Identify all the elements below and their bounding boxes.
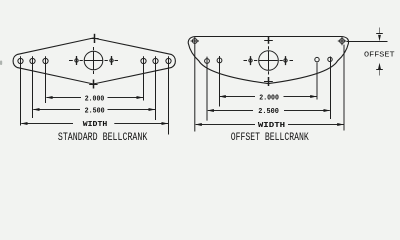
- hole P2 with extension line: [217, 56, 222, 107]
- arrow 2.000 left: [46, 96, 53, 99]
- hole P3: [315, 57, 319, 61]
- svg-text:OFFSET BELLCRANK: OFFSET BELLCRANK: [231, 132, 309, 144]
- small cross mark left of pivot: [249, 56, 252, 65]
- hole H4 with extension line: [141, 56, 146, 100]
- top vertex center mark: [90, 34, 98, 43]
- dimension line 2.500 (left crank): [33, 109, 80, 111]
- arrow 2.000 right: [137, 96, 144, 99]
- arrow 2.500 right: [149, 108, 156, 111]
- svg-text:2.500: 2.500: [258, 108, 279, 116]
- small cross mark right of pivot: [284, 56, 287, 65]
- dimension line 2.000 (left crank): [46, 97, 81, 99]
- arrow 2.000 right: [310, 95, 317, 98]
- small cross mark left of pivot: [75, 56, 78, 65]
- corner hole right: [338, 37, 346, 45]
- svg-text:2.000: 2.000: [85, 95, 105, 103]
- centerline dashes around central pivot: [244, 46, 294, 74]
- dimension line 2.000 (offset crank): [220, 96, 255, 98]
- arrow WIDTH left: [195, 123, 202, 126]
- svg-text:WIDTH: WIDTH: [83, 121, 108, 129]
- arrow WIDTH left: [21, 122, 28, 125]
- svg-text:WIDTH: WIDTH: [258, 122, 286, 130]
- arrow 2.500 left: [33, 108, 40, 111]
- bottom vertex center mark: [89, 80, 97, 89]
- offset bottom leader tail: [379, 70, 381, 76]
- arrow WIDTH right: [162, 122, 169, 125]
- central pivot hole with crosshair: [259, 51, 279, 71]
- svg-text:STANDARD BELLCRANK: STANDARD BELLCRANK: [58, 132, 148, 144]
- arrow 2.500 right: [324, 109, 331, 112]
- arrow 2.000 left: [219, 95, 226, 98]
- svg-text:OFFSET: OFFSET: [364, 51, 395, 59]
- offset top leader tail: [379, 28, 381, 35]
- small cross mark right of pivot: [110, 56, 113, 65]
- top center mark: [264, 37, 273, 44]
- paper background: [0, 0, 400, 164]
- hole H1 (left tip) with extension line: [18, 56, 23, 125]
- offset up arrow: [378, 63, 381, 69]
- extension line corner right (WIDTH): [343, 45, 345, 131]
- body outline (offset bellcrank plate): [188, 37, 348, 84]
- svg-text:2.000: 2.000: [259, 95, 279, 103]
- svg-text:2.500: 2.500: [85, 107, 105, 115]
- hole H6 (right tip) with extension line: [166, 56, 171, 134]
- bottom vertex center mark: [264, 77, 273, 86]
- extension line P3 (2.000 right): [316, 63, 318, 100]
- central pivot hole with crosshair: [84, 51, 103, 70]
- dimension line WIDTH (offset crank): [196, 124, 255, 126]
- offset down arrow: [378, 35, 381, 41]
- dimension line 2.500 (offset crank): [208, 110, 253, 112]
- faint scan smudge left edge: [0, 61, 2, 66]
- body outline (standard bellcrank plate): [13, 38, 175, 84]
- arrow WIDTH right: [337, 123, 344, 126]
- hole H3 with extension line: [43, 56, 48, 103]
- arrow 2.500 left: [207, 109, 214, 112]
- offset bottom tick: [376, 69, 383, 71]
- hole P1 with extension line: [205, 57, 210, 121]
- offset reference line from corner hole: [347, 41, 388, 43]
- centerline dashes around central hole: [69, 47, 118, 74]
- hole H2 with extension line: [30, 56, 35, 118]
- dimension line WIDTH (left crank): [21, 123, 73, 125]
- corner hole left with extension line: [191, 37, 199, 132]
- hole H5 with extension line: [153, 56, 158, 120]
- offset top tick: [376, 33, 383, 35]
- hole P4 with extension line: [328, 57, 332, 120]
